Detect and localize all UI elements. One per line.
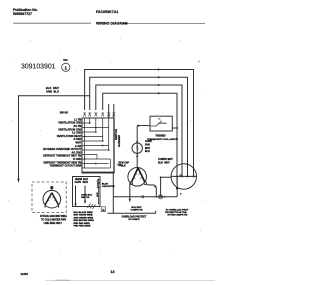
svg-text:PNK PINK WIRE: PNK PINK WIRE (74, 226, 91, 228)
svg-text:309103901: 309103901 (21, 64, 56, 71)
svg-text:BLK WHT: BLK WHT (131, 207, 142, 209)
svg-text:RUN CAP: RUN CAP (119, 162, 130, 165)
svg-text:13: 13 (111, 270, 115, 274)
svg-text:BLK: BLK (145, 151, 150, 153)
svg-text:FAN: FAN (145, 144, 150, 147)
svg-text:BLK WHT: BLK WHT (158, 162, 170, 165)
svg-text:ORN BLU: ORN BLU (46, 90, 59, 94)
svg-text:BLK WHT: BLK WHT (46, 86, 59, 90)
svg-text:GANGED: GANGED (117, 135, 121, 147)
svg-text:BRN BROWN WIRE: BRN BROWN WIRE (74, 220, 95, 222)
svg-text:GRN GREEN WIRE: GRN GREEN WIRE (74, 217, 94, 219)
svg-text:NO.: NO. (63, 58, 68, 62)
svg-text:CAPACITOR: CAPACITOR (102, 185, 115, 188)
svg-text:OVERLOAD PROTECT: OVERLOAD PROTECT (122, 215, 147, 218)
svg-text:WHT WHITE WIRE: WHT WHITE WIRE (74, 215, 93, 217)
svg-text:COND: COND (145, 141, 152, 143)
svg-text:PROTECTOR IN THE: PROTECTOR IN THE (165, 212, 187, 214)
svg-text:5995367727: 5995367727 (13, 12, 32, 16)
svg-text:RED RED WIRE: RED RED WIRE (74, 223, 91, 225)
svg-text:IN COMPR: IN COMPR (129, 219, 140, 221)
svg-text:R: R (102, 208, 105, 212)
svg-text:HERM BLK: HERM BLK (75, 179, 88, 181)
svg-text:IN THE COMPR TM: IN THE COMPR TM (168, 215, 188, 217)
svg-text:THERMOST CUTOUT BRN: THERMOST CUTOUT BRN (50, 164, 82, 168)
svg-text:FAC053K7A1: FAC053K7A1 (96, 10, 118, 14)
svg-text:TO COLD WATER PIPE: TO COLD WATER PIPE (41, 219, 67, 222)
svg-text:CAPS TEST: CAPS TEST (75, 181, 89, 184)
svg-text:BLK BLACK WIRE: BLK BLACK WIRE (74, 211, 94, 214)
svg-text:ATTACH GROUND WIRE: ATTACH GROUND WIRE (40, 215, 67, 218)
svg-text:MOT: MOT (145, 148, 151, 150)
svg-text:BLK: BLK (121, 165, 126, 167)
svg-text:LINE SIDE ONLY: LINE SIDE ONLY (44, 223, 63, 225)
svg-text:12/00: 12/00 (21, 272, 29, 276)
svg-text:BLK: BLK (97, 192, 99, 197)
svg-text:SW NO: SW NO (60, 112, 69, 115)
svg-text:GRN TM: GRN TM (81, 197, 89, 199)
svg-text:THERMO: THERMO (155, 135, 165, 138)
svg-text:TO OVERLOAD PROT: TO OVERLOAD PROT (166, 208, 189, 211)
svg-text:WIRING DIAGRAM: WIRING DIAGRAM (96, 21, 128, 25)
svg-text:COMPR TM: COMPR TM (131, 210, 143, 212)
svg-text:1: 1 (65, 65, 68, 70)
